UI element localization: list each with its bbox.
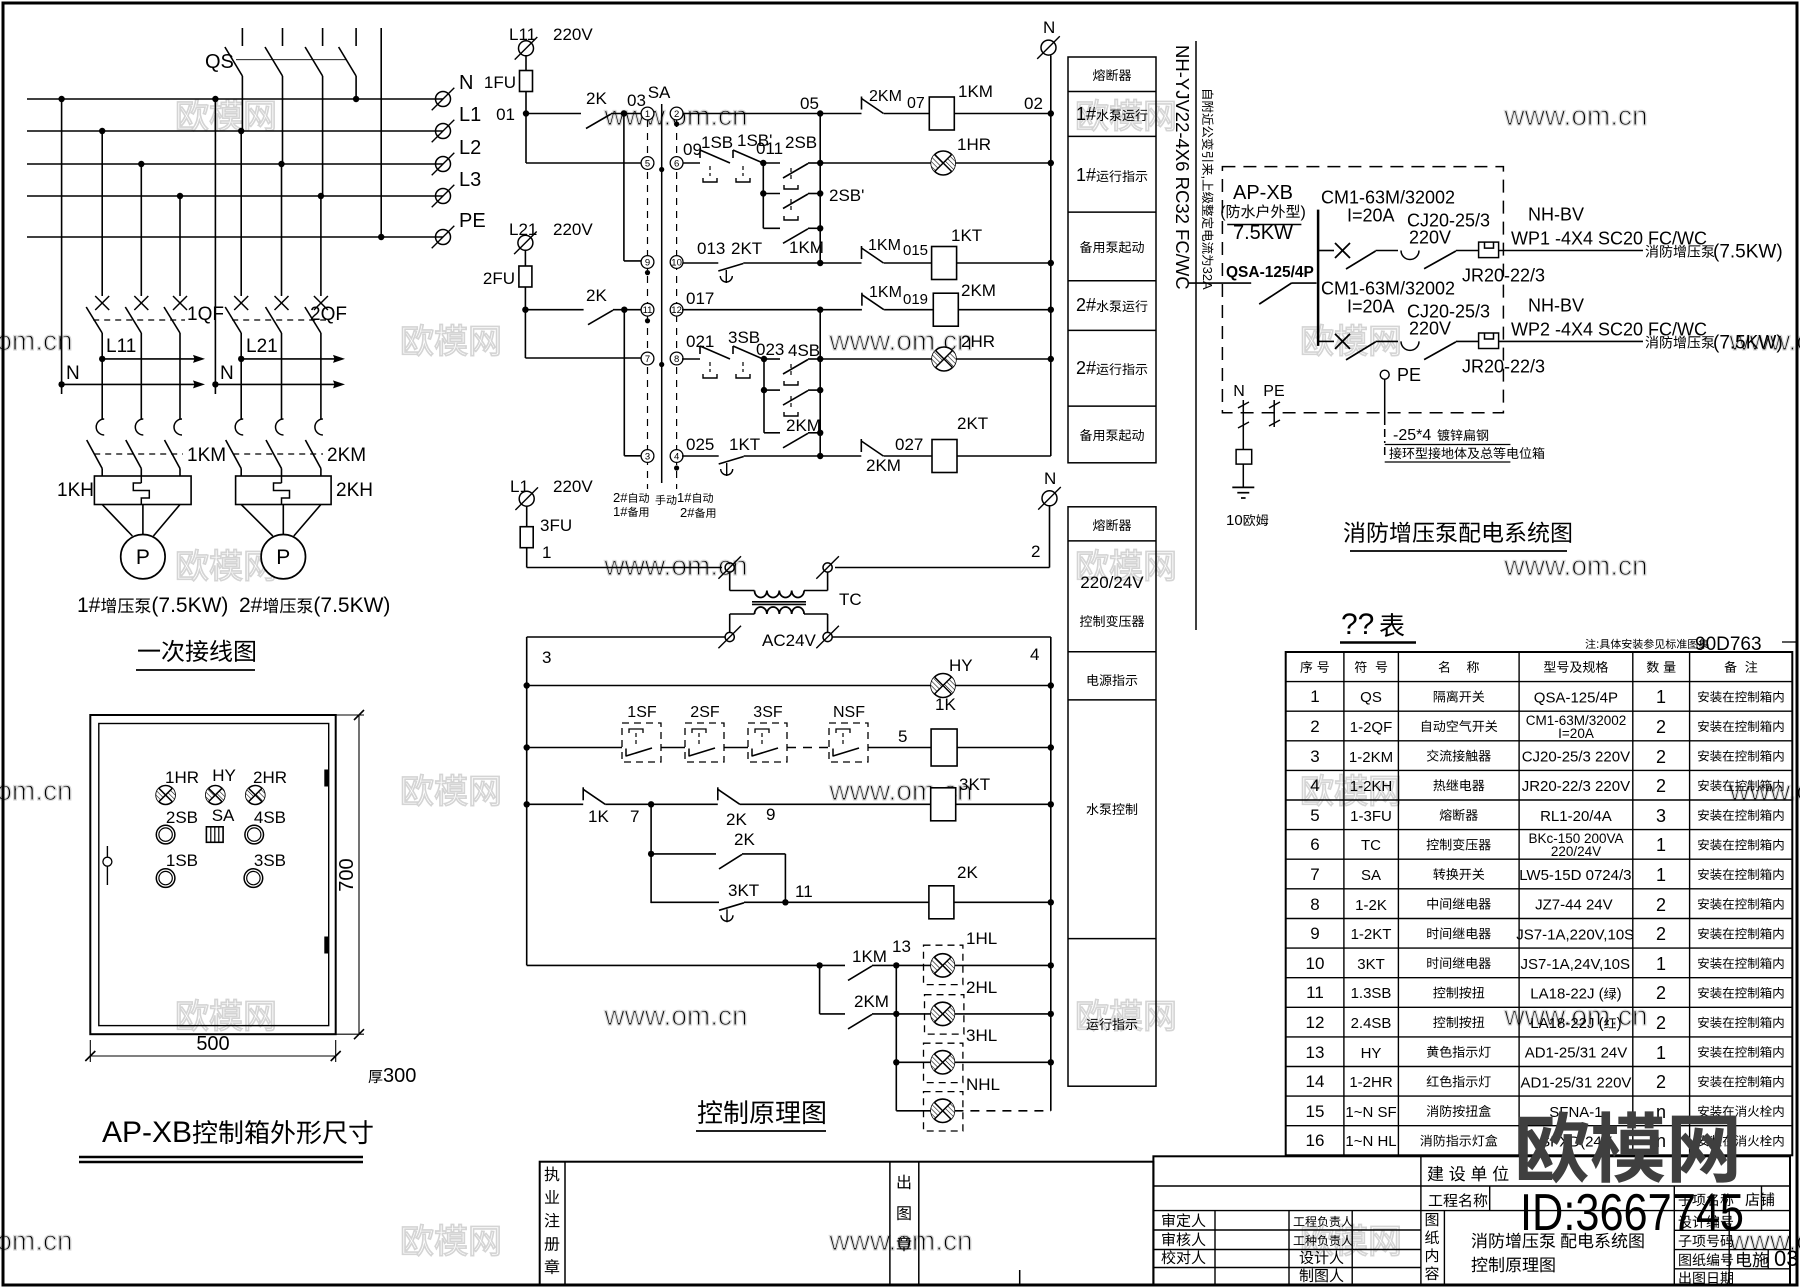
node 1KM out bbox=[817, 225, 823, 231]
button actuator 2SB break bbox=[784, 199, 798, 220]
terminal L1 bbox=[432, 104, 482, 142]
svg-text:2K: 2K bbox=[586, 286, 607, 305]
node row2 right bbox=[1048, 160, 1054, 166]
svg-text:NH-YJV22-4X6 RC32 FC/WC: NH-YJV22-4X6 RC32 FC/WC bbox=[1172, 45, 1193, 290]
svg-text:WP2 -4X4 SC20 FC/WC: WP2 -4X4 SC20 FC/WC bbox=[1511, 319, 1707, 339]
wire 2SF-3SF bbox=[724, 747, 748, 749]
wire PE down bbox=[1384, 379, 1386, 455]
svg-text:1-2KM: 1-2KM bbox=[1349, 749, 1393, 766]
button 3SB on box bbox=[244, 851, 286, 887]
contactor NC contact 1KM row4 bbox=[820, 284, 928, 310]
door hinge top bbox=[325, 770, 329, 786]
svg-text:2: 2 bbox=[1656, 895, 1666, 915]
title block frame left bbox=[540, 1162, 1154, 1285]
label issue date bbox=[1679, 1271, 1733, 1284]
node 017 bbox=[682, 289, 820, 310]
label power indicator bbox=[1088, 674, 1138, 686]
label drawing content bbox=[1425, 1213, 1439, 1280]
label control transformer bbox=[1080, 573, 1144, 627]
svg-text:3KT: 3KT bbox=[728, 881, 759, 900]
svg-text:500: 500 bbox=[196, 1033, 229, 1055]
svg-text:AD1-25/31 24V: AD1-25/31 24V bbox=[1525, 1045, 1628, 1062]
svg-text:(7.5KW): (7.5KW) bbox=[151, 594, 228, 617]
svg-text:700: 700 bbox=[336, 858, 358, 891]
contactor contact 1KM selfhold bbox=[763, 228, 824, 257]
node row4 right bbox=[958, 307, 1054, 313]
pushbutton 1SB bbox=[700, 133, 733, 182]
coil 2KT bbox=[884, 414, 989, 473]
svg-text:JR20-22/3: JR20-22/3 bbox=[1462, 266, 1545, 286]
svg-text:www.om.cn: www.om.cn bbox=[1503, 100, 1647, 131]
wire node05 chain bbox=[819, 114, 821, 264]
svg-text:027: 027 bbox=[895, 435, 923, 454]
terminal N control top bbox=[1037, 18, 1060, 59]
label AP-XB bbox=[1220, 182, 1306, 244]
svg-text:05: 05 bbox=[800, 94, 819, 113]
svg-text:6: 6 bbox=[1310, 835, 1319, 854]
svg-text:AC24V: AC24V bbox=[762, 631, 817, 650]
wire QS pole4 to N bbox=[355, 76, 357, 99]
svg-text:1#: 1# bbox=[613, 504, 628, 519]
wire node03 down to SA9 bbox=[624, 114, 641, 261]
label AC24V bbox=[762, 631, 817, 650]
svg-text:2: 2 bbox=[1656, 924, 1666, 944]
relay contact 2K row4 bbox=[525, 286, 613, 325]
label project leader bbox=[1294, 1216, 1353, 1227]
svg-text:L21: L21 bbox=[509, 220, 537, 239]
table row 14 1-2HR bbox=[1306, 1072, 1784, 1092]
svg-text:2QF: 2QF bbox=[310, 304, 347, 325]
svg-text:8: 8 bbox=[674, 354, 679, 365]
coil 1K bbox=[931, 695, 957, 766]
svg-text:1-2KH: 1-2KH bbox=[1350, 778, 1393, 795]
svg-text:TC: TC bbox=[1361, 837, 1381, 854]
svg-text:2#: 2# bbox=[239, 594, 263, 617]
svg-text:CM1-63M/32002: CM1-63M/32002 bbox=[1321, 188, 1455, 208]
svg-text:1: 1 bbox=[1656, 835, 1666, 855]
svg-text:09: 09 bbox=[683, 140, 702, 159]
svg-text:01: 01 bbox=[496, 105, 515, 124]
fuse 3FU bbox=[520, 516, 572, 548]
label run indicator bbox=[1086, 1018, 1137, 1030]
svg-text:2KM: 2KM bbox=[866, 456, 901, 475]
svg-text:4: 4 bbox=[1310, 776, 1319, 795]
label drafter bbox=[1300, 1268, 1344, 1282]
label standby start 2 bbox=[1080, 429, 1144, 441]
label subitem number bbox=[1679, 1235, 1733, 1247]
label checker bbox=[1162, 1232, 1205, 1246]
cable label source note bbox=[1200, 90, 1215, 290]
label sub project name bbox=[1679, 1193, 1734, 1206]
pushbutton 3SB2 bbox=[733, 346, 763, 378]
terminal PE inside box bbox=[1380, 365, 1421, 385]
busbar L1 bbox=[27, 128, 443, 134]
svg-text:AD1-25/31 220V: AD1-25/31 220V bbox=[1521, 1074, 1632, 1091]
label drawing number bbox=[1679, 1253, 1733, 1266]
svg-text:3KT: 3KT bbox=[1357, 956, 1385, 973]
table equipment list title bbox=[1340, 608, 1416, 643]
time relay contact 2KT bbox=[718, 239, 762, 283]
wire HL chain down bbox=[893, 965, 899, 1110]
svg-text:07: 07 bbox=[907, 95, 925, 112]
fire button NSF bbox=[829, 704, 868, 762]
svg-text:JS7-1A,220V,10S: JS7-1A,220V,10S bbox=[1516, 926, 1634, 943]
wire QS pole2 to L2 bbox=[282, 76, 284, 164]
svg-text:2: 2 bbox=[674, 109, 679, 120]
pushbutton 4SB break contact bbox=[764, 390, 820, 405]
door handle bbox=[103, 846, 112, 885]
title distribution system diagram bbox=[1344, 522, 1571, 551]
svg-text:5: 5 bbox=[1310, 806, 1319, 825]
svg-text:CJ20-25/3 220V: CJ20-25/3 220V bbox=[1522, 749, 1630, 766]
value drawing number bbox=[1737, 1246, 1798, 1271]
node N feed arrow group1 bbox=[58, 363, 205, 388]
svg-text:www.om.cn: www.om.cn bbox=[0, 775, 73, 806]
svg-text:1#: 1# bbox=[1076, 104, 1096, 124]
svg-text:10: 10 bbox=[1226, 512, 1243, 529]
label pump1 indicator bbox=[1076, 165, 1147, 185]
svg-text:2#: 2# bbox=[1076, 295, 1096, 315]
relay NC contact 2K bbox=[651, 787, 775, 829]
SA contact 10 bbox=[670, 256, 683, 269]
SA contact 4 bbox=[670, 450, 683, 471]
node 025 bbox=[682, 435, 719, 456]
wire 3SF-NSF dashed bbox=[787, 747, 829, 749]
lamp 1HL bbox=[896, 929, 1054, 985]
svg-text:1KM: 1KM bbox=[852, 947, 887, 966]
svg-text:(7.5KW): (7.5KW) bbox=[313, 594, 390, 617]
table row 16 1~N HL bbox=[1306, 1131, 1784, 1151]
node L11 feed arrow bbox=[99, 336, 205, 363]
svg-text:ID:3667745: ID:3667745 bbox=[1520, 1184, 1744, 1242]
function label column lower bbox=[1068, 507, 1156, 1086]
table row 3 1-2KM bbox=[1310, 747, 1783, 767]
wire bus 3 left bbox=[527, 637, 725, 965]
function label column upper bbox=[1068, 57, 1156, 463]
SA contact 3 bbox=[641, 450, 654, 463]
svg-text:023: 023 bbox=[756, 340, 784, 359]
lamp 2HL bbox=[896, 978, 1054, 1034]
wire right bus 24V bottom bbox=[1050, 1062, 1052, 1111]
svg-text:2.4SB: 2.4SB bbox=[1351, 1015, 1392, 1032]
table row 4 1-2KH bbox=[1310, 776, 1783, 796]
table row 1 QS bbox=[1310, 687, 1783, 707]
wire 2KM branch bbox=[820, 965, 845, 1014]
pushbutton 3SB bbox=[700, 328, 760, 378]
watermark site id bbox=[1520, 1184, 1744, 1242]
svg-text:1HR: 1HR bbox=[957, 135, 991, 154]
svg-text:011: 011 bbox=[756, 139, 783, 158]
wire N drop group2 bbox=[214, 99, 216, 394]
svg-text:PE: PE bbox=[1397, 365, 1421, 385]
button 2SB on box bbox=[156, 808, 198, 844]
svg-text:1#: 1# bbox=[1076, 165, 1096, 185]
node row5 right bbox=[1048, 356, 1054, 362]
svg-text:14: 14 bbox=[1306, 1072, 1325, 1091]
relay NC contact 1K bbox=[583, 787, 609, 826]
svg-text:019: 019 bbox=[903, 291, 928, 308]
node 013 bbox=[683, 239, 725, 263]
svg-text:013: 013 bbox=[697, 239, 725, 258]
feeder WP1 breaker CM1 contactor CJ20 thermal JR20 bbox=[1318, 188, 1783, 286]
svg-text:N: N bbox=[459, 72, 473, 94]
node N feed arrow group2 bbox=[212, 363, 345, 388]
svg-text:SA: SA bbox=[212, 806, 235, 825]
node 4SBp out bbox=[817, 387, 823, 393]
node 2KM out bbox=[817, 430, 823, 436]
busbar L3 bbox=[27, 193, 443, 199]
wire to 3KT coil bbox=[740, 803, 931, 805]
label thickness 300 bbox=[369, 1065, 417, 1087]
svg-text:3KT: 3KT bbox=[959, 775, 990, 794]
time relay contact 3KT bbox=[719, 881, 759, 922]
svg-text:LA18-22J (: LA18-22J ( bbox=[1530, 986, 1603, 1003]
svg-text:2KM: 2KM bbox=[327, 445, 366, 466]
node 7 bbox=[605, 801, 654, 826]
terminal N control 2 bbox=[1038, 469, 1061, 510]
svg-text:1-2K: 1-2K bbox=[1355, 897, 1387, 914]
svg-text:QSA-125/4P: QSA-125/4P bbox=[1226, 264, 1314, 281]
label fuse cell bbox=[1093, 69, 1131, 81]
svg-text:1KM: 1KM bbox=[789, 238, 824, 257]
svg-text:015: 015 bbox=[903, 242, 928, 259]
svg-text:8: 8 bbox=[1310, 895, 1319, 914]
svg-text:11: 11 bbox=[643, 305, 653, 316]
relay contact 2K row1 bbox=[526, 89, 611, 129]
wire 3KT row left bbox=[524, 801, 584, 807]
lamp HY bbox=[524, 656, 1055, 698]
svg-text:2: 2 bbox=[1656, 1072, 1666, 1092]
svg-text:1-2QF: 1-2QF bbox=[1350, 719, 1393, 736]
wire row6 right bbox=[957, 455, 1051, 457]
ground symbol bbox=[1232, 487, 1254, 498]
table note standard atlas bbox=[1585, 634, 1797, 655]
busbar AP-XB bbox=[1317, 210, 1320, 346]
svg-text:16: 16 bbox=[1306, 1131, 1325, 1150]
node 13 bbox=[820, 937, 911, 969]
svg-text:2KH: 2KH bbox=[336, 480, 373, 501]
svg-text:2: 2 bbox=[1656, 983, 1666, 1003]
svg-text:5: 5 bbox=[645, 158, 650, 169]
svg-text:1: 1 bbox=[645, 109, 650, 120]
table row 13 HY bbox=[1306, 1043, 1784, 1063]
wire 2K down to 11 bbox=[784, 854, 786, 902]
svg-text:RL1-20/4A: RL1-20/4A bbox=[1540, 808, 1612, 825]
svg-text:3: 3 bbox=[1656, 806, 1666, 826]
svg-text:2K: 2K bbox=[957, 863, 978, 882]
svg-text:4: 4 bbox=[1030, 645, 1039, 664]
svg-text:1KM: 1KM bbox=[868, 237, 901, 254]
svg-text:1~N HL: 1~N HL bbox=[1345, 1133, 1396, 1150]
label pump1 run bbox=[1076, 104, 1147, 124]
svg-text:1-3FU: 1-3FU bbox=[1350, 808, 1392, 825]
svg-text:1: 1 bbox=[1310, 687, 1319, 706]
table header bbox=[1300, 661, 1757, 673]
svg-text:9: 9 bbox=[645, 257, 650, 268]
svg-text:2K: 2K bbox=[726, 810, 747, 829]
svg-text:2#: 2# bbox=[1076, 358, 1096, 378]
svg-text:L11: L11 bbox=[106, 336, 136, 357]
svg-text:JZ7-44 24V: JZ7-44 24V bbox=[1535, 897, 1613, 914]
busbar PE bbox=[27, 234, 443, 240]
svg-text:300: 300 bbox=[383, 1065, 416, 1087]
terminal L21 control bbox=[509, 220, 593, 254]
fire button 1SF bbox=[622, 704, 661, 762]
enclosure AP-XB dashed box bbox=[1222, 167, 1503, 413]
svg-text:220/24V: 220/24V bbox=[1551, 844, 1601, 859]
svg-text:P: P bbox=[136, 546, 150, 569]
svg-text:3SF: 3SF bbox=[753, 704, 783, 721]
SA position labels bbox=[613, 490, 715, 520]
SA contact 7 bbox=[641, 352, 654, 365]
coil 1KT bbox=[884, 226, 982, 280]
svg-text:1K: 1K bbox=[935, 695, 956, 714]
svg-text:-25*4: -25*4 bbox=[1393, 427, 1431, 444]
label designer bbox=[1300, 1250, 1344, 1264]
svg-text:NH-BV: NH-BV bbox=[1528, 205, 1584, 225]
contactor contact 1KM lamp bbox=[848, 947, 887, 980]
svg-text:P: P bbox=[276, 546, 290, 569]
svg-text:AP-XB: AP-XB bbox=[1233, 182, 1293, 204]
svg-text:www.om.cn: www.om.cn bbox=[603, 1000, 747, 1031]
wire SF row left bbox=[524, 744, 623, 750]
svg-text:1K: 1K bbox=[588, 807, 609, 826]
SA contact 5 bbox=[641, 157, 654, 170]
title block frame right bbox=[1153, 1156, 1790, 1285]
wire left bus to 1HL row bbox=[527, 962, 823, 968]
wire node 017 chain bbox=[819, 310, 821, 456]
label grounding strip bbox=[1385, 427, 1545, 462]
svg-text:I=20A: I=20A bbox=[1347, 296, 1395, 316]
wire row1 to 05 bbox=[683, 113, 820, 115]
node 2FU out bbox=[522, 307, 528, 313]
svg-text:I=20A: I=20A bbox=[1558, 726, 1594, 741]
svg-text:025: 025 bbox=[686, 435, 714, 454]
node 03 bbox=[611, 91, 646, 117]
node 2SB out bbox=[817, 160, 823, 166]
svg-text:AP-XB: AP-XB bbox=[102, 1116, 192, 1149]
svg-text:10: 10 bbox=[671, 257, 682, 268]
svg-text:1-2KT: 1-2KT bbox=[1351, 926, 1392, 943]
contactor 2KM main contacts bbox=[226, 419, 366, 476]
svg-text:2KM: 2KM bbox=[869, 88, 902, 105]
svg-text:1: 1 bbox=[1656, 1043, 1666, 1063]
label practice seal bbox=[545, 1167, 560, 1275]
wire 3KT contact leads bbox=[651, 901, 785, 903]
svg-text:1: 1 bbox=[542, 543, 551, 562]
svg-text:PE: PE bbox=[1263, 383, 1284, 400]
svg-text:4SB: 4SB bbox=[254, 808, 286, 827]
coil 3KT bbox=[931, 775, 990, 821]
SA contact 2 bbox=[670, 107, 683, 127]
svg-text:2KM: 2KM bbox=[961, 281, 996, 300]
svg-text:3HL: 3HL bbox=[966, 1026, 997, 1045]
thermal relay 1KH bbox=[57, 476, 191, 505]
svg-text:220/24V: 220/24V bbox=[1080, 573, 1144, 592]
SA contact 12 bbox=[670, 303, 683, 316]
node PE outgoing bbox=[1263, 383, 1284, 427]
label construction unit bbox=[1428, 1166, 1509, 1182]
node 05 bbox=[800, 94, 823, 117]
contactor 1KM main contacts bbox=[87, 419, 226, 476]
title primary wiring diagram bbox=[136, 640, 255, 670]
label 10 ohm bbox=[1226, 512, 1268, 529]
indicator lamp HY on box bbox=[206, 766, 236, 805]
svg-text:N: N bbox=[1233, 383, 1245, 400]
label design number bbox=[1679, 1215, 1733, 1228]
svg-text:1HL: 1HL bbox=[966, 929, 997, 948]
node 017 junction bbox=[817, 307, 823, 313]
cable label NH-YJV22 bbox=[1172, 45, 1193, 290]
wire 2KT to 05 chain bbox=[743, 260, 823, 266]
svg-text:L1: L1 bbox=[510, 477, 529, 496]
svg-text:3: 3 bbox=[542, 648, 551, 667]
pushbutton 2SB make contact bbox=[763, 133, 820, 178]
wire branch 7 down bbox=[648, 804, 654, 903]
table row 6 TC bbox=[1310, 831, 1783, 859]
contactor NC contact 1KM row3 bbox=[820, 237, 928, 263]
wire QS pole3 to L3 bbox=[322, 76, 324, 196]
wire 1K right bbox=[957, 744, 1054, 750]
label pump control bbox=[1087, 803, 1138, 815]
SA contact 11 bbox=[641, 303, 654, 323]
lamp 1HR bbox=[820, 135, 1051, 175]
node 5 bbox=[868, 727, 931, 748]
circuit breaker 1QF bbox=[86, 131, 224, 419]
selector switch SA on box bbox=[206, 806, 235, 842]
node 011 bbox=[756, 139, 783, 166]
svg-text:JR20-22/3 220V: JR20-22/3 220V bbox=[1522, 778, 1630, 795]
svg-text:2SB: 2SB bbox=[785, 133, 817, 152]
svg-text:PE: PE bbox=[459, 210, 486, 232]
svg-text:2KT: 2KT bbox=[731, 239, 762, 258]
svg-text:2KM: 2KM bbox=[786, 416, 821, 435]
terminal L11 control bbox=[509, 25, 593, 60]
svg-text:WP1 -4X4 SC20 FC/WC: WP1 -4X4 SC20 FC/WC bbox=[1511, 229, 1707, 249]
feeder WP2 breaker CM1 contactor CJ20 thermal JR20 bbox=[1318, 278, 1783, 376]
node 02 bbox=[954, 94, 1054, 117]
svg-text:L1: L1 bbox=[459, 104, 481, 126]
wire 2FU down to SA7 bbox=[525, 310, 641, 358]
svg-text:1: 1 bbox=[1656, 687, 1666, 707]
svg-text:7.5KW: 7.5KW bbox=[1233, 222, 1293, 244]
SA contact 1 bbox=[641, 107, 654, 120]
terminal N bbox=[432, 72, 474, 110]
indicator lamp 1HR on box bbox=[156, 768, 199, 805]
svg-text:2HL: 2HL bbox=[966, 978, 997, 997]
svg-text:1KM: 1KM bbox=[187, 445, 226, 466]
svg-text:JR20-22/3: JR20-22/3 bbox=[1462, 356, 1545, 376]
svg-text:3FU: 3FU bbox=[540, 516, 572, 535]
indicator lamp 2HR on box bbox=[246, 768, 287, 805]
button actuator 2SB bbox=[784, 168, 798, 189]
svg-text:L11: L11 bbox=[509, 25, 536, 44]
svg-text::: : bbox=[1596, 637, 1599, 651]
control box AP-XB outline bbox=[90, 715, 335, 1034]
pushbutton 2SB break contact bbox=[763, 186, 864, 209]
svg-text:NH-BV: NH-BV bbox=[1528, 295, 1584, 315]
svg-text:6: 6 bbox=[674, 158, 679, 169]
svg-text:2K: 2K bbox=[586, 89, 607, 108]
svg-text:): ) bbox=[1301, 204, 1306, 221]
svg-text:02: 02 bbox=[1024, 94, 1043, 113]
dimension 700 bbox=[336, 710, 364, 1039]
node 021 bbox=[682, 332, 714, 359]
button actuator 4SB bbox=[784, 364, 798, 385]
node 4SB out bbox=[817, 356, 823, 362]
svg-text:HY: HY bbox=[949, 656, 973, 675]
node 11 bbox=[782, 882, 812, 906]
